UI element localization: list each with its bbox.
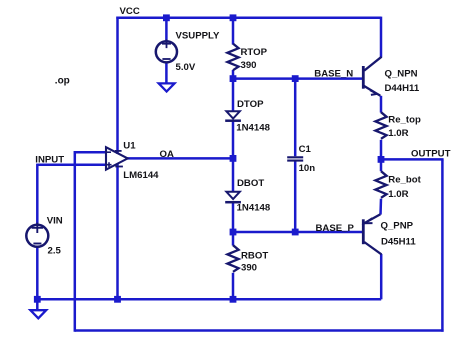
junction BASE_P/C1	[292, 229, 299, 236]
junction VCC/VSUPPLY	[163, 14, 170, 21]
wire RTOP top	[232, 18, 235, 45]
transistor Q_PNP	[363, 214, 381, 254]
wire OUTPUT node to Re_bot	[380, 159, 383, 171]
svg-text:Q_PNP: Q_PNP	[381, 221, 414, 232]
svg-text:OUTPUT: OUTPUT	[411, 149, 451, 160]
ground symbol (VIN)	[30, 310, 46, 318]
svg-text:INPUT: INPUT	[35, 154, 64, 165]
svg-text:OA: OA	[160, 149, 174, 160]
wire DBOT to BASE_P node	[232, 202, 235, 233]
junction BASE_N/C1	[292, 75, 299, 82]
wire BASE_N node to DTOP	[232, 79, 235, 112]
junction OA/diodes	[230, 155, 237, 162]
wire VSUPPLY top	[165, 18, 168, 42]
wire BASE_N	[233, 77, 362, 80]
svg-text:1N4148: 1N4148	[236, 123, 270, 134]
wire ground rail	[37, 298, 381, 301]
svg-text:390: 390	[241, 60, 257, 71]
junction ground/op-amp V-	[114, 296, 121, 303]
junction BASE_P/diodes	[230, 229, 237, 236]
diode DBOT	[225, 192, 241, 202]
svg-text:VIN: VIN	[47, 216, 63, 227]
svg-text:LM6144: LM6144	[123, 170, 159, 181]
svg-text:5.0V: 5.0V	[176, 62, 196, 73]
wire C1 bottom	[294, 162, 297, 233]
svg-text:BASE_N: BASE_N	[314, 69, 353, 80]
wire Re_top to OUTPUT node	[380, 140, 383, 160]
wire Q_NPN emitter to Re_top	[380, 96, 383, 113]
capacitor C1	[287, 157, 303, 160]
ground symbol (VSUPPLY)	[159, 83, 175, 91]
junction ground/VIN	[34, 296, 41, 303]
voltage source VIN	[26, 223, 48, 247]
junction ground/RBOT	[230, 296, 237, 303]
svg-text:1.0R: 1.0R	[388, 189, 408, 200]
resistor Re_top	[375, 112, 386, 139]
svg-text:U1: U1	[123, 141, 136, 152]
wire DTOP to OA node	[232, 121, 235, 159]
svg-text:VCC: VCC	[120, 6, 140, 17]
wire VSUPPLY bottom to ground	[165, 62, 168, 84]
svg-text:BASE_P: BASE_P	[316, 223, 355, 234]
wire RBOT bottom to ground rail	[232, 273, 235, 300]
svg-text:10n: 10n	[299, 163, 316, 174]
wire C1 top	[294, 79, 297, 157]
wire feedback left vertical	[74, 151, 77, 332]
svg-text:D45H11: D45H11	[381, 237, 416, 248]
svg-text:C1: C1	[299, 144, 312, 155]
svg-text:2.5: 2.5	[48, 246, 62, 257]
junction OUTPUT node	[378, 156, 385, 163]
op-amp U1	[106, 147, 128, 170]
resistor RBOT	[227, 245, 238, 272]
wire VCC rail	[116, 17, 381, 20]
svg-text:390: 390	[241, 263, 257, 274]
wire OA	[127, 157, 233, 160]
wire BASE_P	[233, 231, 362, 234]
wire RTOP bottom to BASE_N node	[232, 70, 235, 79]
svg-text:DBOT: DBOT	[237, 178, 264, 189]
svg-text:1N4148: 1N4148	[237, 202, 271, 213]
voltage source VSUPPLY	[156, 39, 177, 62]
wire OUTPUT right edge	[441, 159, 444, 331]
wire feedback bottom	[75, 329, 444, 332]
wire VIN bottom to ground rail	[36, 247, 39, 299]
svg-text:DTOP: DTOP	[237, 99, 264, 110]
svg-text:Re_top: Re_top	[388, 114, 421, 125]
junction BASE_N/RTOP	[230, 75, 237, 82]
transistor Q_NPN	[363, 57, 381, 96]
wire Re_bot to Q_PNP emitter	[379, 199, 382, 215]
wire OA node to DBOT	[232, 158, 235, 191]
svg-text:D44H11: D44H11	[385, 83, 420, 94]
junction VCC/RTOP	[230, 14, 237, 21]
svg-text:1.0R: 1.0R	[388, 128, 408, 139]
svg-text:RBOT: RBOT	[241, 250, 268, 261]
diode DTOP	[225, 111, 241, 120]
wire VCC to op-amp V+ pin	[116, 17, 119, 154]
resistor Re_bot	[375, 171, 386, 198]
svg-text:.op: .op	[55, 76, 70, 87]
wire ground stub below rail	[36, 299, 39, 310]
svg-text:Re_bot: Re_bot	[388, 174, 421, 185]
svg-text:Q_NPN: Q_NPN	[385, 69, 418, 80]
wire feedback to inverting input	[75, 151, 107, 154]
wire op-amp V- pin to ground rail	[116, 164, 119, 299]
wire Q_PNP collector to ground rail	[380, 254, 383, 299]
wire OUTPUT	[381, 158, 444, 161]
svg-text:RTOP: RTOP	[241, 47, 268, 58]
wire INPUT	[37, 164, 106, 167]
wire BASE_P node to RBOT	[232, 232, 235, 246]
wire INPUT to VIN	[36, 164, 39, 225]
resistor RTOP	[227, 44, 238, 71]
svg-text:VSUPPLY: VSUPPLY	[176, 31, 221, 42]
wire Q_NPN collector	[380, 17, 383, 58]
